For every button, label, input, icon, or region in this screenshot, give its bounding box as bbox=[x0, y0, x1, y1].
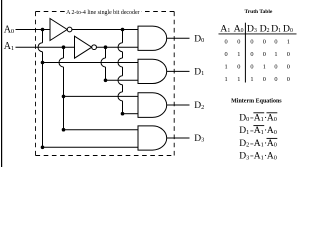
svg-text:3: 3 bbox=[254, 28, 257, 34]
junction: A1 bus / U5 top input row bbox=[62, 95, 66, 99]
svg-text:0: 0 bbox=[287, 51, 290, 58]
svg-text:1: 1 bbox=[287, 39, 290, 46]
svg-text:3: 3 bbox=[201, 137, 204, 144]
junction: /A1 bus corner to U4 bottom input bbox=[104, 79, 108, 83]
svg-text:2: 2 bbox=[201, 104, 204, 111]
svg-text:0: 0 bbox=[250, 51, 253, 58]
svg-text:1: 1 bbox=[237, 76, 240, 83]
dashed decoder boundary box: right edge bbox=[173, 12, 175, 156]
svg-text:D: D bbox=[247, 23, 254, 34]
svg-text:2: 2 bbox=[267, 28, 270, 34]
AND gate U6 (D3) bbox=[138, 126, 167, 150]
svg-text:0: 0 bbox=[274, 129, 277, 136]
svg-text:1: 1 bbox=[278, 28, 281, 34]
svg-text:3: 3 bbox=[246, 154, 249, 161]
svg-text:0: 0 bbox=[11, 28, 14, 35]
svg-text:Truth Table: Truth Table bbox=[244, 9, 272, 15]
svg-text:0: 0 bbox=[263, 76, 266, 83]
svg-text:1: 1 bbox=[225, 64, 228, 71]
junction: A1 lead / A1 bus bbox=[62, 45, 66, 49]
wire: /A1 branch row to AND gate U4 bottom input bbox=[106, 79, 139, 81]
truth table header underline bbox=[219, 33, 297, 35]
junction: A0 lead / A0 bus bbox=[41, 28, 45, 32]
svg-text:0: 0 bbox=[274, 76, 277, 83]
svg-text:0: 0 bbox=[274, 116, 277, 123]
svg-text:1: 1 bbox=[250, 76, 253, 83]
svg-text:0: 0 bbox=[287, 76, 290, 83]
svg-text:0: 0 bbox=[274, 39, 277, 46]
truth table vertical divider between inputs and outputs bbox=[244, 23, 246, 83]
svg-text:0: 0 bbox=[241, 28, 244, 34]
wire: output D3 from gate U6 (D3) bbox=[167, 137, 190, 139]
svg-text:0: 0 bbox=[246, 116, 249, 123]
vertical bus: /A1 from U2 output (hops over A0 branch row) bbox=[101, 47, 106, 80]
junction: A0 bus / A0 branch row bbox=[41, 61, 45, 65]
svg-text:D: D bbox=[260, 23, 267, 34]
svg-text:Minterm Equations: Minterm Equations bbox=[231, 99, 282, 105]
inverter U2 (generates /A1) bbox=[75, 36, 97, 58]
vertical bus: A1 (hops over A0 branch row) bbox=[59, 47, 63, 130]
svg-text:D: D bbox=[271, 23, 278, 34]
svg-text:1: 1 bbox=[237, 51, 240, 58]
svg-text:A: A bbox=[234, 23, 241, 34]
svg-text:1: 1 bbox=[274, 51, 277, 58]
vertical bus: /A0 from U1 output (hops over four rows) bbox=[118, 30, 122, 114]
wire: output D0 from gate U3 (D0) bbox=[167, 37, 190, 39]
wire: A0 branch row to AND gate U6 bottom input bbox=[43, 146, 139, 148]
svg-text:0: 0 bbox=[250, 39, 253, 46]
AND gate U3 (D0) bbox=[138, 26, 167, 50]
svg-text:0: 0 bbox=[274, 142, 277, 149]
svg-text:0: 0 bbox=[237, 39, 240, 46]
svg-text:0: 0 bbox=[290, 28, 293, 34]
wire: input A1 lead to inverter U2 bbox=[16, 46, 75, 48]
svg-text:1: 1 bbox=[263, 64, 266, 71]
wire: output D1 from gate U4 (D1) bbox=[167, 70, 190, 72]
AND gate U5 (D2) bbox=[138, 93, 167, 118]
wire: /A0 branch row to AND gate U5 bottom input bbox=[123, 113, 139, 115]
junction: /A0 bus corner to U5 bottom input bbox=[121, 112, 125, 116]
svg-text:1: 1 bbox=[201, 70, 204, 77]
svg-text:0: 0 bbox=[274, 154, 277, 161]
svg-text:D: D bbox=[283, 23, 290, 34]
wire: A1 branch row to AND gate U6 top input bbox=[64, 129, 139, 131]
dashed decoder boundary box: left edge bbox=[35, 12, 37, 156]
svg-text:0: 0 bbox=[250, 64, 253, 71]
wire: A1 branch row to AND gate U5 top input bbox=[64, 95, 139, 97]
dashed decoder boundary box: bottom edge bbox=[36, 155, 175, 157]
inverter U1 (generates /A0) bbox=[50, 19, 72, 41]
vertical bus: A0 (hops over A1 row) bbox=[38, 30, 43, 148]
junction: /A0 row / /A0 bus bbox=[121, 28, 125, 32]
dashed decoder boundary box: top edge right segment bbox=[141, 11, 174, 13]
svg-text:2: 2 bbox=[246, 142, 249, 149]
svg-text:0: 0 bbox=[263, 39, 266, 46]
svg-text:0: 0 bbox=[237, 64, 240, 71]
junction: /A1 row / /A1 bus bbox=[104, 45, 108, 49]
svg-text:0: 0 bbox=[225, 39, 228, 46]
svg-text:1: 1 bbox=[227, 28, 230, 34]
svg-text:0: 0 bbox=[263, 51, 266, 58]
wire: input A0 lead to inverter U1 bbox=[16, 29, 51, 31]
wire: output D2 from gate U5 (D2) bbox=[167, 104, 190, 106]
svg-text:A: A bbox=[220, 23, 227, 34]
svg-text:A 2-to-4 line single bit decod: A 2-to-4 line single bit decoder bbox=[66, 10, 139, 16]
svg-text:0: 0 bbox=[287, 64, 290, 71]
svg-text:0: 0 bbox=[201, 37, 204, 44]
AND gate U4 (D1) bbox=[138, 59, 167, 83]
svg-text:1: 1 bbox=[11, 45, 14, 52]
wire: /A1 row from U2 output to AND gate U3 bottom input bbox=[97, 46, 138, 48]
wire: A0 branch row to AND gate U4 top input bbox=[43, 62, 139, 64]
svg-text:1: 1 bbox=[246, 129, 249, 136]
page left border line bbox=[1, 0, 3, 167]
wire: /A0 row from U1 output to AND gate U3 top input bbox=[72, 29, 138, 31]
svg-text:1: 1 bbox=[225, 76, 228, 83]
junction: A1 bus corner to U6 top input bbox=[62, 128, 66, 132]
junction: A0 bus corner to U6 bottom input bbox=[41, 146, 45, 150]
dashed decoder boundary box: top edge left segment bbox=[36, 11, 65, 13]
svg-text:0: 0 bbox=[225, 51, 228, 58]
svg-text:0: 0 bbox=[274, 64, 277, 71]
